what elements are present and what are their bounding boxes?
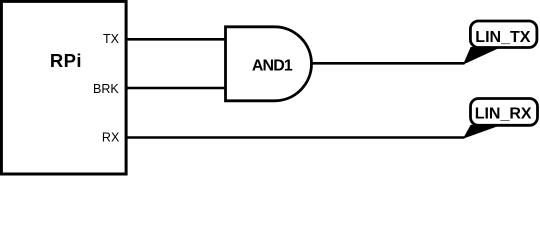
and-gate U2 AND1 (body) <box>226 27 312 101</box>
svg-text:LIN_TX: LIN_TX <box>475 29 530 46</box>
wire RX: RPi RX pin to LIN_RX flag <box>125 136 465 139</box>
svg-text:BRK: BRK <box>93 82 119 96</box>
wire AND1 output to LIN_TX flag <box>312 62 465 65</box>
wire BRK: RPi BRK pin to AND1 input B <box>125 87 227 90</box>
wire TX: RPi TX pin to AND1 input A <box>125 38 227 41</box>
net flag LIN_RX (callout bubble with pointer) <box>464 99 538 138</box>
svg-text:RX: RX <box>102 131 120 145</box>
svg-text:RPi: RPi <box>50 50 82 71</box>
net flag LIN_TX (callout bubble with pointer) <box>464 21 537 64</box>
svg-text:TX: TX <box>103 32 120 46</box>
svg-text:LIN_RX: LIN_RX <box>475 106 532 123</box>
component U1 RPi (rectangle body) <box>1 1 126 174</box>
svg-text:AND1: AND1 <box>252 57 293 74</box>
